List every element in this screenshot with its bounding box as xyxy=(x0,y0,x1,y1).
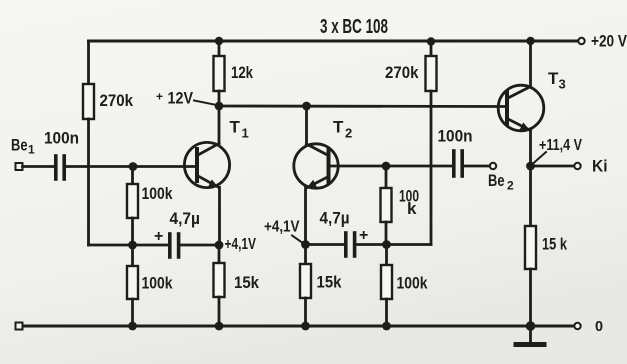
svg-text:T: T xyxy=(230,118,241,137)
wire T3 emitter xyxy=(529,131,532,167)
node T2 collector junction xyxy=(302,102,311,111)
svg-text:12V: 12V xyxy=(168,89,194,108)
capacitor C1 100n xyxy=(54,156,58,179)
terminal 0V left xyxy=(16,323,23,330)
node midpoint2 xyxy=(382,240,391,249)
resistor R7 15k stage2 xyxy=(304,245,307,264)
wire T1 collector xyxy=(218,106,221,144)
svg-text:3 x BC 108: 3 x BC 108 xyxy=(320,16,388,38)
node T1 base xyxy=(129,162,138,171)
terminal 0 right xyxy=(574,323,580,329)
wire 270k stage2 drop xyxy=(430,91,433,245)
wire C4 to Be2 xyxy=(464,165,490,168)
wire 270k to midpoint1 xyxy=(87,119,90,245)
resistor R5 15k stage1 xyxy=(218,245,221,263)
wire T3 collector xyxy=(529,41,532,87)
svg-text:100k: 100k xyxy=(142,184,173,203)
node midpoint1 xyxy=(128,241,137,250)
svg-text:270k: 270k xyxy=(100,91,134,110)
svg-text:T: T xyxy=(548,69,559,88)
svg-text:4,7µ: 4,7µ xyxy=(170,209,201,228)
svg-text:+20 V: +20 V xyxy=(591,32,627,51)
node T1 collector xyxy=(215,102,224,111)
svg-text:100k: 100k xyxy=(142,274,173,293)
resistor R1 270k xyxy=(83,84,94,119)
svg-text:+4,1V: +4,1V xyxy=(264,219,300,236)
svg-text:+: + xyxy=(359,227,368,244)
resistor R6 100k stage2 upper xyxy=(385,166,388,188)
wire T2 collector xyxy=(305,106,308,144)
transistor T1 xyxy=(184,142,229,187)
node T2 emitter xyxy=(301,240,310,249)
svg-text:4,7µ: 4,7µ xyxy=(320,209,350,228)
svg-text:15 k: 15 k xyxy=(542,235,567,254)
capacitor C4 100n stage2 xyxy=(452,151,456,176)
ground xyxy=(529,326,532,343)
svg-text:12k: 12k xyxy=(231,63,253,82)
svg-text:Be: Be xyxy=(11,136,28,155)
terminal Be1 input xyxy=(16,163,23,170)
resistor R8 100k stage2 lower xyxy=(385,245,388,266)
terminal Ki xyxy=(574,163,580,169)
svg-text:100n: 100n xyxy=(438,127,473,146)
wire T2 base xyxy=(330,165,452,168)
svg-text:1: 1 xyxy=(242,126,249,141)
terminal +20V xyxy=(578,38,584,44)
wire T2 emitter xyxy=(304,188,307,245)
transistor T3 xyxy=(498,85,544,131)
wire C1 to T1 base xyxy=(66,165,195,168)
svg-text:Ki: Ki xyxy=(592,157,608,176)
svg-text:3: 3 xyxy=(559,77,566,92)
node rail R8 xyxy=(382,322,391,331)
svg-text:100n: 100n xyxy=(44,129,79,148)
resistor R3 100k lower xyxy=(131,245,134,266)
svg-text:1: 1 xyxy=(28,143,35,157)
wire Be1 to C1 xyxy=(23,165,55,168)
node T1 emitter xyxy=(215,241,224,250)
wire bottom rail xyxy=(23,325,575,328)
wire collector bus xyxy=(219,105,505,108)
resistor R9 270k stage2 xyxy=(427,37,435,45)
resistor R4 12k xyxy=(218,41,221,56)
resistor R2 100k upper xyxy=(131,167,134,185)
svg-text:T: T xyxy=(333,118,344,137)
wire top supply rail xyxy=(89,40,580,43)
svg-text:15k: 15k xyxy=(317,273,342,292)
svg-text:+4,1V: +4,1V xyxy=(225,236,257,253)
wire left 270k drop xyxy=(87,41,90,84)
node rail ground xyxy=(526,321,536,331)
node T3 emitter xyxy=(526,162,535,171)
capacitor C2 4,7u xyxy=(133,244,169,247)
wire T1 emitter xyxy=(218,188,221,246)
svg-text:0: 0 xyxy=(595,319,603,335)
terminal Be2 xyxy=(490,163,496,169)
node T2 base divider xyxy=(382,162,391,171)
node rail R5 xyxy=(215,322,224,331)
capacitor C3 4,7u stage2 xyxy=(306,243,345,246)
svg-text:2: 2 xyxy=(345,126,352,141)
node rail R7 xyxy=(301,322,310,331)
transistor T2 mirrored xyxy=(294,144,338,188)
svg-text:270k: 270k xyxy=(385,63,419,82)
resistor R10 15k output xyxy=(529,166,532,226)
svg-text:+: + xyxy=(156,90,163,104)
svg-text:15k: 15k xyxy=(234,273,259,292)
wire T3 emitter to Ki xyxy=(531,165,575,168)
svg-text:2: 2 xyxy=(507,179,514,193)
svg-text:Be: Be xyxy=(488,171,505,190)
node rail R3 xyxy=(128,322,137,331)
svg-text:k: k xyxy=(407,199,417,218)
svg-text:100k: 100k xyxy=(397,274,428,293)
svg-text:+: + xyxy=(154,228,163,245)
